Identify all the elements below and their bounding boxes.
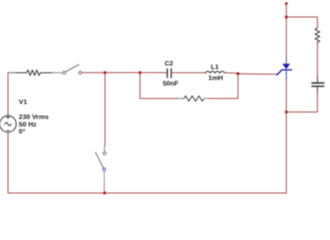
wire top-left corner to resistor R1 xyxy=(8,73,17,77)
wire left rail below source V1 xyxy=(7,132,9,193)
svg-text:0°: 0° xyxy=(19,127,26,135)
wire C2 to inductor L1 xyxy=(172,72,206,74)
wire node D down to bottom rail xyxy=(285,112,287,193)
resistor R1 (top left, horizontal) xyxy=(17,70,52,75)
wire R3 to capacitor C1 xyxy=(316,44,318,77)
SCR U1 cathode bar xyxy=(281,69,291,71)
wire lower branch right (up to node C) xyxy=(210,73,239,98)
junction node D xyxy=(285,111,288,114)
wire right branch top xyxy=(286,17,317,28)
svg-text:L1: L1 xyxy=(211,64,219,71)
wire switch S1 to node A xyxy=(82,72,105,74)
wire bottom rail xyxy=(8,192,286,194)
capacitor C1 plates xyxy=(312,82,324,84)
AC source V1 circle xyxy=(0,116,16,132)
capacitor C2 plates xyxy=(166,69,168,78)
inductor L1 coil xyxy=(205,71,224,73)
wire node A down to switch S2 xyxy=(104,73,106,146)
terminal dot top xyxy=(285,2,288,5)
wire C1 to node D xyxy=(286,93,317,113)
SCR U1 gate line xyxy=(278,70,282,74)
svg-text:V1: V1 xyxy=(19,99,28,106)
switch S1 (top, open) xyxy=(63,71,66,74)
wire switch S2 down to bottom rail xyxy=(103,171,105,182)
wire node A to node B xyxy=(105,72,140,74)
svg-text:1mH: 1mH xyxy=(208,75,223,82)
wire node C to SCR gate xyxy=(238,73,278,75)
SCR U1 triangle xyxy=(282,64,290,70)
wire L1 to node C xyxy=(225,72,238,74)
SCR U1 cathode lead xyxy=(285,70,287,80)
V1 minus sign xyxy=(7,130,10,132)
junction node C xyxy=(237,72,240,75)
junction node B xyxy=(139,71,142,74)
resistor R2 (lower branch, horizontal) xyxy=(179,98,185,100)
capacitor C1 bottom lead xyxy=(316,87,318,93)
wire lower branch left (node B down) xyxy=(140,73,179,99)
wire SCR top terminal xyxy=(285,4,287,18)
wire R1 to switch S1 xyxy=(52,72,63,74)
junction node A xyxy=(104,71,107,74)
junction bottom rail xyxy=(103,192,106,195)
svg-text:50 Hz: 50 Hz xyxy=(19,121,37,128)
wire left rail above source V1 xyxy=(7,77,9,117)
svg-text:C2: C2 xyxy=(165,61,174,68)
wire node B to capacitor C2 xyxy=(140,72,167,74)
switch S2 (vertical, open) xyxy=(103,152,106,155)
junction node E xyxy=(285,16,288,19)
wire SCR cathode down to node D xyxy=(285,80,287,113)
resistor R3 (right branch, vertical) xyxy=(315,28,320,44)
svg-text:50nF: 50nF xyxy=(163,81,179,88)
wire SCR anode column xyxy=(285,17,287,58)
svg-text:230 Vrms: 230 Vrms xyxy=(19,114,49,121)
V1 plus sign xyxy=(7,116,10,119)
V1 sine symbol xyxy=(5,122,11,125)
